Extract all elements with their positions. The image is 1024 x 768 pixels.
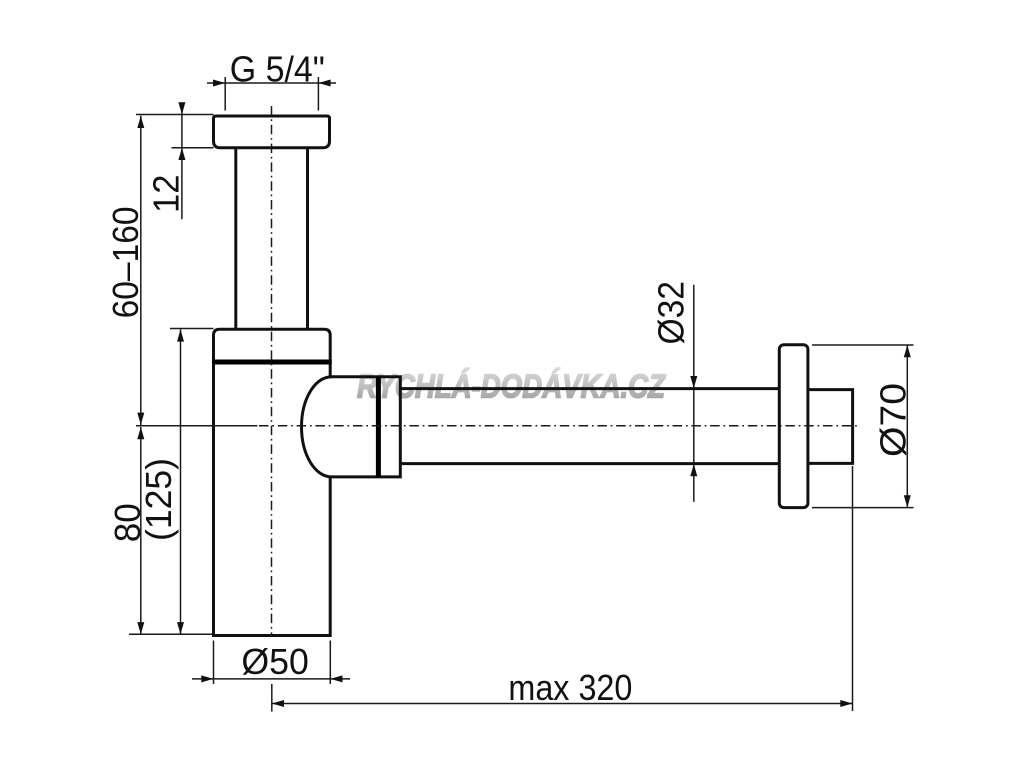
svg-text:max 320: max 320	[508, 667, 632, 708]
arrow O50 left	[201, 675, 213, 682]
top flange nut	[214, 116, 330, 148]
wall pipe piece	[808, 390, 853, 464]
side port outline	[331, 377, 401, 477]
svg-text:Ø50: Ø50	[241, 641, 309, 682]
arrow O32 top	[690, 376, 697, 388]
wall rosette flange	[779, 345, 808, 508]
dimension max 320 line	[272, 466, 853, 712]
arrow O50 right	[330, 675, 342, 682]
arrow O70 bottom	[904, 495, 911, 507]
dimension 60-160 line	[136, 116, 257, 426]
horizontal centerline	[259, 425, 860, 427]
arrow O70 top	[904, 345, 911, 357]
arrow 80 bottom	[137, 622, 144, 634]
vertical inlet pipe	[236, 149, 308, 330]
side port dome	[302, 377, 332, 477]
port nut joint thick line	[376, 377, 381, 477]
arrow 80 top	[137, 427, 144, 439]
dimension G 5/4 line	[207, 77, 336, 111]
dimension O32 line	[693, 285, 695, 502]
horizontal tube	[400, 389, 778, 464]
dimension 12 line	[136, 103, 214, 220]
svg-text:RYCHLÁ-DODÁVKA.CZ: RYCHLÁ-DODÁVKA.CZ	[357, 368, 667, 405]
svg-text:(125): (125)	[138, 458, 179, 541]
svg-text:G 5/4": G 5/4"	[230, 49, 325, 90]
dimension (125) line	[170, 329, 214, 635]
arrow 12 bottom	[178, 148, 185, 160]
arrow 125 top	[177, 329, 184, 341]
arrow G54 right	[318, 80, 330, 87]
arrow 60-160 bottom	[137, 413, 144, 425]
dimension O50 line	[192, 641, 350, 685]
body nut joint thick band	[212, 360, 332, 365]
arrow max320 right	[840, 700, 852, 707]
arrow 12 top	[178, 102, 185, 114]
vertical centerline	[271, 106, 273, 636]
trap body	[214, 329, 331, 635]
svg-text:60–160: 60–160	[105, 206, 146, 318]
svg-text:12: 12	[146, 174, 187, 213]
dimension 80 line	[129, 427, 214, 634]
watermark RYCHLA-DODAVKA.CZ	[357, 368, 667, 405]
arrow 125 bottom	[177, 622, 184, 634]
arrow max320 left	[272, 700, 284, 707]
svg-text:Ø32: Ø32	[651, 281, 692, 345]
arrow G54 left	[213, 80, 225, 87]
arrow O32 bottom	[690, 464, 697, 476]
svg-text:Ø70: Ø70	[873, 383, 914, 457]
arrow 60-160 top	[137, 116, 144, 128]
dimension O70 line	[812, 345, 914, 508]
